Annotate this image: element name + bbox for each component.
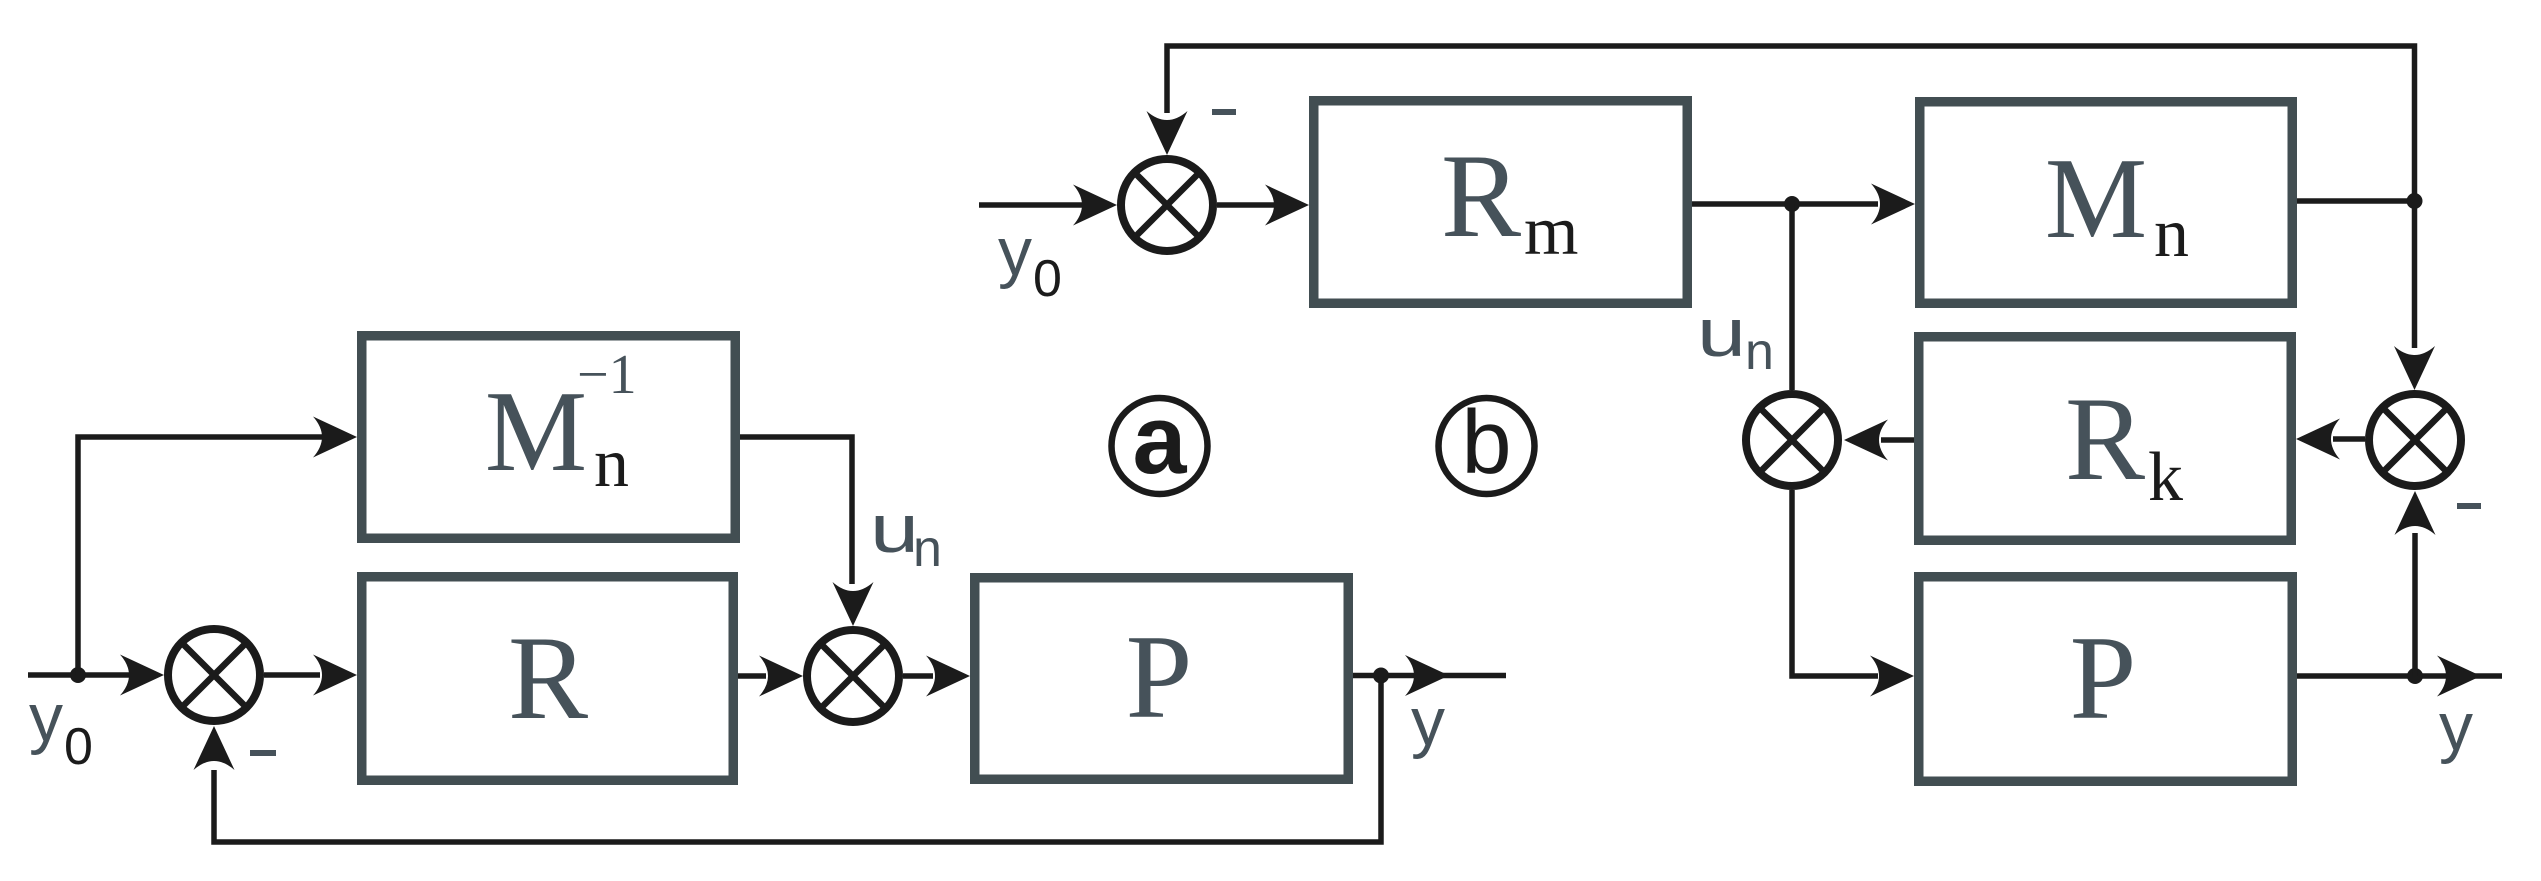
wire: S3 to Rm (diagram b) [1217,202,1275,208]
block Mn (diagram b) [1920,102,2293,304]
summing junction S3 (diagram b) [1121,159,1213,251]
node: branch dot on y0 input (diagram a) [70,667,86,683]
block Mn^-1 (diagram a) [362,336,736,539]
wire: branch up from dot to Mn^-1 input (diagram a) [78,437,346,675]
arrowhead into summing junction S2 top (diagram a) [833,582,874,626]
arrowhead into summing junction S1 bottom (diagram a) [194,726,235,770]
arrowhead into block P (diagram b) [1870,656,1914,697]
svg-text:−1: −1 [577,344,637,406]
label y0 (diagram a input) [29,680,93,776]
svg-text:y: y [2439,689,2473,765]
summing junction S2 (diagram a) [807,630,899,722]
arrowhead into block Mn (diagram b) [1871,184,1915,225]
label circled b [1439,393,1535,494]
block P (diagram b) [1919,577,2293,782]
node: dot at Mn output corner (diagram b) [2407,193,2423,209]
svg-text:u: u [870,491,919,567]
block Rm (diagram b) [1314,101,1688,304]
svg-text:n: n [913,520,942,578]
svg-text:n: n [2154,195,2189,272]
svg-text:R: R [1441,129,1521,262]
wire: S5 output down and right into P (diagram b) [1792,490,1878,676]
block P (diagram a) [975,578,1349,780]
arrowhead into summing junction S3 left (diagram b) [1073,185,1117,226]
block Rk (diagram b) [1919,337,2292,541]
wire: Rm output to Mn input (diagram b) [1692,201,1878,207]
svg-text:P: P [2070,611,2137,744]
minus sign at S1 (diagram a) [250,750,276,756]
svg-text:M: M [2045,135,2147,262]
svg-text:m: m [1524,193,1578,270]
wire: P output line (diagram b) [2297,673,2502,679]
block R (diagram a) [362,577,734,781]
arrowhead into summing junction S2 left (diagram a) [759,656,803,697]
arrowhead into summing junction S5 right (diagram b) [1844,420,1888,461]
wire: Mn output to corner dot (diagram b) [2297,198,2415,204]
label un (diagram b) [1697,295,1774,381]
minus sign at S4 (diagram b) [2457,503,2481,509]
wire: top feedback from Mn output down into S3 (diagram b) [1167,46,2415,348]
label un (diagram a) [870,491,942,578]
node: output dot (diagram b) [2407,668,2423,684]
arrowhead into block Mn^-1 (diagram a) [313,417,357,458]
arrowhead into summing junction S3 top (diagram b) [1147,111,1188,155]
wire: y0 input line (diagram a) [28,672,131,678]
svg-text:k: k [2148,439,2183,516]
wire: S1 to R (diagram a) [264,672,320,678]
arrowhead on output line (diagram b) [2437,656,2481,697]
svg-text:R: R [2065,372,2145,505]
svg-text:y: y [29,680,63,756]
svg-text:R: R [508,611,588,744]
summing junction S4 (diagram b) [2369,394,2461,486]
wire: from output dot up to S4 bottom (diagram b) [2412,533,2418,676]
arrowhead into block Rm (diagram b) [1265,185,1309,226]
svg-text:n: n [594,425,629,502]
svg-text:y: y [998,214,1032,290]
svg-text:a: a [1133,385,1188,494]
svg-text:0: 0 [1033,250,1062,308]
svg-text:P: P [1126,610,1193,743]
wire: feedback from output dot to S1 bottom (diagram a) [214,676,1381,843]
wire: Mn^-1 output down to summing junction S2 (diagram a) [740,437,852,584]
arrowhead into summing junction S4 bottom (diagram b) [2395,491,2436,535]
arrowhead into summing junction S1 (diagram a) [120,655,164,696]
arrowhead into summing junction S4 top (diagram b) [2394,346,2435,390]
svg-text:u: u [1697,295,1746,371]
arrowhead into block Rk right side (diagram b) [2296,419,2340,460]
svg-text:0: 0 [64,718,93,776]
label y0 (diagram b input) [998,214,1062,308]
svg-text:n: n [1745,323,1774,381]
minus sign at S3 (diagram b) [1212,109,1236,115]
wire: P output line (diagram a) [1353,673,1506,679]
node: output dot (diagram a) [1373,668,1389,684]
svg-text:y: y [1411,684,1445,760]
arrowhead into block P (diagram a) [926,656,970,697]
arrowhead into block R (diagram a) [313,655,357,696]
arrowhead on output line (diagram a) [1405,655,1449,696]
wire: from Rm output dot down to S5 top (diagram b) [1789,204,1795,390]
wire: y0 input line (diagram b) [979,202,1082,208]
wire: Rk output to S5 (diagram b) [1881,437,1914,443]
summing junction S5 (diagram b) [1746,394,1838,486]
wire: S2 to P (diagram a) [903,673,933,679]
summing junction S1 (diagram a) [168,629,260,721]
label circled a [1112,385,1208,494]
wire: R to S2 (diagram a) [738,673,766,679]
svg-text:M: M [485,368,587,495]
node: dot on Rm output (diagram b) [1784,196,1800,212]
wire: S4 to Rk (diagram b) [2333,436,2365,442]
svg-text:b: b [1461,393,1511,493]
